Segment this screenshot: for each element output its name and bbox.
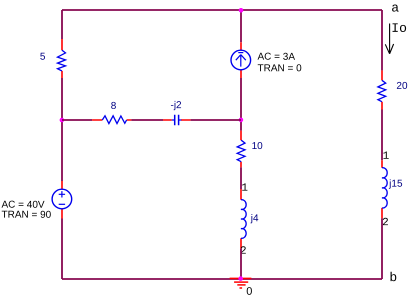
svg-text:Io: Io [391,21,407,36]
inductor j15 [382,160,387,218]
capacitor -j2 [163,115,191,125]
svg-text:b: b [389,270,397,285]
svg-text:8: 8 [111,101,117,112]
wire left middle [61,78,63,181]
svg-text:20: 20 [396,81,408,92]
wire left lower [61,219,63,280]
current source I1 (AC = 3A) [231,42,251,78]
svg-text:1: 1 [383,151,390,163]
inductor j4 [241,189,246,249]
Io current arrow [385,24,393,54]
wire middle vertical lower [240,249,242,279]
wire bottom bus [62,278,382,280]
wire right lower [381,218,383,279]
svg-text:TRAN = 90: TRAN = 90 [1,210,51,221]
resistor 8 [92,116,131,124]
wire middle vertical (R10 to j4) [240,167,242,189]
wire middle vertical upper [240,10,242,42]
wire right middle [381,110,383,161]
svg-text:2: 2 [382,217,389,229]
junction dot ground node [238,276,243,281]
svg-text:0: 0 [246,286,252,298]
junction dot middle node [239,118,244,123]
ground symbol 0 [230,278,252,288]
svg-text:-j2: -j2 [170,100,182,111]
wire top bus [62,9,382,11]
svg-text:AC = 3A: AC = 3A [257,52,295,63]
wire left upper [61,10,63,39]
wire middle horizontal center [131,119,163,121]
resistor 20 [378,70,386,109]
resistor 10 [237,131,245,168]
wire middle vertical (source to junction) [240,78,242,131]
voltage source V1 (AC = 40V) [52,181,72,219]
junction dot left-middle node [60,118,65,123]
resistor 5 [58,39,66,78]
svg-text:10: 10 [252,141,264,152]
svg-text:5: 5 [40,52,46,63]
wire right upper [381,10,383,70]
svg-text:a: a [391,0,399,15]
svg-text:TRAN = 0: TRAN = 0 [257,63,302,74]
svg-text:1: 1 [241,183,248,195]
svg-text:j4: j4 [250,213,259,224]
junction dot top node [239,8,244,13]
svg-text:j15: j15 [388,179,403,190]
wire middle horizontal right [191,119,241,121]
wire middle horizontal left [62,119,92,121]
